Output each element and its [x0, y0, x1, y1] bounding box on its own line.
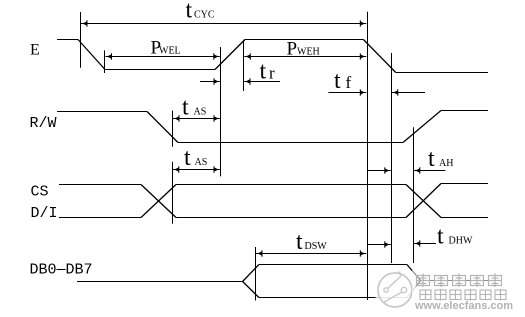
svg-text:f: f [346, 73, 352, 92]
svg-text:WEH: WEH [297, 47, 320, 58]
svg-text:r: r [269, 64, 275, 83]
svg-text:E: E [30, 42, 40, 59]
svg-text:t: t [296, 229, 303, 255]
svg-text:WEL: WEL [159, 46, 181, 57]
svg-text:t: t [334, 68, 341, 94]
svg-text:DSW: DSW [305, 241, 328, 252]
svg-text:D/I: D/I [31, 205, 58, 222]
svg-text:CYC: CYC [194, 10, 215, 21]
svg-text:t: t [186, 0, 193, 24]
svg-text:t: t [437, 224, 444, 250]
svg-text:www.elecfans.com: www.elecfans.com [414, 300, 513, 312]
svg-text:t: t [184, 145, 191, 171]
svg-text:DHW: DHW [449, 236, 473, 247]
svg-text:CS: CS [31, 184, 49, 201]
svg-text:t: t [182, 95, 189, 121]
svg-text:t: t [428, 146, 435, 172]
svg-text:AS: AS [195, 157, 208, 168]
svg-text:AS: AS [194, 107, 207, 118]
svg-text:t: t [260, 59, 267, 85]
svg-text:DB0—DB7: DB0—DB7 [30, 262, 93, 279]
svg-text:R/W: R/W [30, 115, 57, 132]
svg-text:AH: AH [439, 158, 453, 169]
svg-text:P: P [287, 39, 298, 60]
